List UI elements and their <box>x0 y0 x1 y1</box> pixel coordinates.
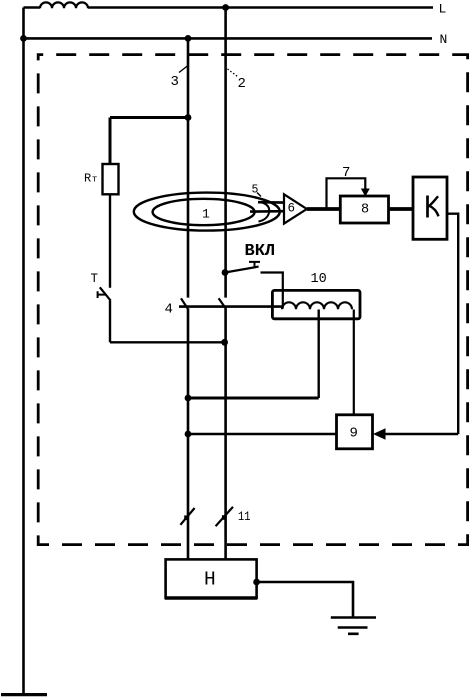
label K drawn glyph <box>426 196 429 218</box>
wire N line <box>24 37 433 40</box>
wire block8 to K <box>389 207 414 211</box>
op-amp 6 amplifier triangle <box>284 194 307 223</box>
wire L line top <box>24 6 434 9</box>
contact 11 pivot line3 <box>184 515 189 520</box>
svg-text:8: 8 <box>361 203 369 218</box>
wire secondary tap lower <box>250 210 284 213</box>
node junction T-line2 <box>221 339 228 346</box>
svg-text:6: 6 <box>288 202 296 216</box>
label 2 leader <box>228 69 238 77</box>
wire amp6 to block8 <box>307 207 341 211</box>
contact 4 blade line2 <box>219 298 226 308</box>
svg-text:4: 4 <box>165 302 173 318</box>
electromagnet 10 winding <box>282 302 352 309</box>
transformer T1 toroid outer <box>134 193 280 231</box>
inductor source winding <box>40 2 88 8</box>
block 8 <box>340 196 388 223</box>
svg-text:7: 7 <box>342 165 350 181</box>
ground symbol right <box>331 618 376 634</box>
wire coil10 mid tap to line3 <box>318 310 320 399</box>
block 9 <box>337 415 373 449</box>
arrowhead into block9 <box>373 428 386 439</box>
wire line 2 (L pole conductor) <box>224 8 227 560</box>
node junction Rt-line3 <box>185 114 192 121</box>
svg-text:L: L <box>439 2 447 17</box>
node junction H output <box>253 579 260 586</box>
wire coil10 right tap to block9 <box>353 310 355 415</box>
node junction line3 y434 <box>185 431 192 438</box>
svg-text:5: 5 <box>252 184 259 197</box>
wire K output down right <box>447 214 458 434</box>
load H box bottom edge thick <box>165 596 257 600</box>
label 3 leader <box>179 65 189 73</box>
arrowhead into block8 <box>361 189 370 197</box>
switch T branch upper wire <box>109 195 111 288</box>
contact 11 pivot line2 <box>222 515 227 520</box>
svg-text:3: 3 <box>171 74 179 90</box>
electromagnet 10 box <box>272 290 360 318</box>
wire Rt to line3 <box>110 118 188 165</box>
wire line 3 (N pole conductor) <box>187 38 190 559</box>
contact 4 blade line3 <box>181 298 188 308</box>
node junction line3 y398 <box>185 395 192 402</box>
wire contact linkage to coil10 <box>179 305 282 308</box>
resistor Rt <box>103 164 119 194</box>
svg-text:11: 11 <box>238 510 251 524</box>
wire block9 to line3 <box>188 433 337 435</box>
switch T blade <box>100 287 111 300</box>
node junction PE-N <box>20 35 27 42</box>
load H box <box>166 559 257 598</box>
transformer T1 toroid inner <box>153 199 255 225</box>
svg-text:Н: Н <box>204 569 216 591</box>
relay K box <box>413 177 447 239</box>
svg-text:10: 10 <box>311 272 327 287</box>
node junction line3-N <box>185 35 192 42</box>
svg-text:ВКЛ: ВКЛ <box>245 242 276 261</box>
svg-text:R: R <box>84 172 91 186</box>
switch VKL junction node <box>222 269 229 276</box>
contact 11 slash line2 <box>216 507 233 526</box>
svg-text:T: T <box>91 272 99 286</box>
wire into block 9 with arrow <box>384 433 458 435</box>
switch VKL blade <box>225 267 259 273</box>
switch T actuator <box>98 291 106 298</box>
svg-text:9: 9 <box>350 426 358 442</box>
winding 5 turn arc <box>259 203 270 222</box>
wire VKL to coil10 <box>261 273 283 309</box>
svg-text:N: N <box>440 32 448 47</box>
switch VKL actuator <box>249 262 260 268</box>
svg-text:2: 2 <box>238 76 246 92</box>
svg-text:1: 1 <box>202 207 210 222</box>
wire H to ground <box>257 582 353 617</box>
svg-text:т: т <box>92 174 98 185</box>
wire secondary tap upper <box>258 201 284 204</box>
label 5 leader <box>257 193 261 197</box>
ground earth bar bottom left <box>1 693 47 696</box>
contact 11 slash line3 <box>180 508 194 525</box>
wire PE earth conductor left <box>22 8 25 694</box>
wire T branch lower to line2 <box>110 301 225 343</box>
dashed enclosure border <box>38 55 467 545</box>
wire feedback 7 <box>327 178 366 209</box>
node junction line2-L <box>222 4 229 11</box>
